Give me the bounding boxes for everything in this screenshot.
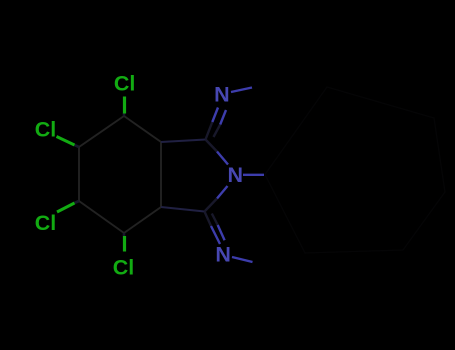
bond C5-Cl (lower left) — [57, 203, 75, 212]
double bond C1=N: line2 N half — [220, 110, 226, 125]
bond N2-C3: N half — [217, 186, 228, 199]
bond C3a-C3 — [161, 207, 205, 212]
svg-text:Cl: Cl — [114, 72, 135, 96]
cyclohexyl ring (faint) — [265, 87, 445, 253]
double bond C3=N: line1 N half — [211, 226, 220, 244]
benzene ring C4-C7a — [79, 116, 161, 233]
bond N2-C (right substituent) — [243, 174, 264, 176]
double bond C1=N: line1 N half — [212, 108, 218, 123]
bond C1-N2: C half — [206, 140, 218, 152]
svg-text:Cl: Cl — [35, 211, 57, 235]
bond C7-Cl (top), dark C tail — [123, 113, 126, 116]
bond N-CH3 (bottom) — [232, 257, 253, 262]
bond C4-Cl (bottom), dark C tail — [123, 233, 126, 236]
bond C1-N2: N half — [217, 152, 228, 165]
bond C7a-C1 — [161, 140, 206, 143]
double bond C3=N: line2 N half — [218, 225, 225, 240]
double bond C3=N: line2 C half — [212, 214, 218, 226]
double bond C1=N: line2 C half — [214, 125, 221, 138]
double bond C3=N (bottom imine): line1 C half — [205, 212, 212, 227]
bond C6-Cl (upper left), dark C tail — [75, 145, 80, 147]
bond C6-Cl (upper left) — [57, 137, 75, 146]
svg-text:Cl: Cl — [35, 117, 57, 141]
svg-text:Cl: Cl — [113, 256, 135, 280]
bond C5-Cl (lower left), dark C tail — [75, 201, 80, 203]
svg-text:N: N — [214, 83, 230, 107]
bond N-CH3 (top) — [231, 88, 252, 93]
double bond C1=N (top imine): line1 C half — [206, 122, 213, 140]
bond C7-Cl (top) — [123, 97, 126, 114]
bond N2-C3: C half — [205, 199, 218, 212]
svg-text:N: N — [228, 163, 244, 187]
svg-text:N: N — [215, 243, 231, 267]
bond C4-Cl (bottom) — [123, 236, 126, 252]
